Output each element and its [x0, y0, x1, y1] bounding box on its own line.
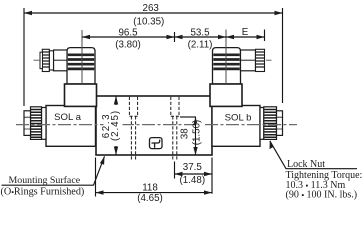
svg-text:(4.65): (4.65): [137, 193, 163, 204]
right cable gland knurled nut: [256, 49, 265, 71]
svg-text:SOL a: SOL a: [54, 112, 82, 123]
svg-text:Mounting Surface: Mounting Surface: [9, 175, 81, 186]
right lock nut end cap: [277, 111, 283, 136]
svg-text:(10.35): (10.35): [133, 17, 164, 28]
leader: lock nut: [270, 141, 358, 169]
mounting bolt hole 1 (dashed): [129, 97, 137, 161]
svg-text:(O▪Rings Furnished): (O▪Rings Furnished): [1, 186, 85, 197]
right connector socket base: [210, 84, 242, 106]
left cable gland knurled nut: [42, 49, 49, 71]
vertical centerline through right connector: [225, 30, 227, 85]
svg-text:53.5: 53.5: [190, 27, 210, 38]
left connector plain section: [54, 50, 68, 71]
svg-text:37.5: 37.5: [183, 162, 203, 173]
svg-text:38: 38: [180, 128, 191, 139]
dimension row2: line, ticks, arrows: [82, 30, 265, 43]
left coil collar: [42, 108, 47, 140]
dimension 263: line and arrows: [24, 11, 283, 15]
left cable gland tip cap: [40, 52, 43, 68]
dimension 62.3: line and arrows: [114, 96, 118, 155]
svg-text:(2.45): (2.45): [110, 110, 121, 141]
svg-text:(90 ▪ 100 IN. lbs.): (90 ▪ 100 IN. lbs.): [286, 190, 358, 201]
right solenoid coil: [212, 106, 260, 147]
vertical centerline through left connector: [81, 30, 83, 84]
svg-text:(3.80): (3.80): [115, 40, 141, 51]
svg-text:E: E: [242, 27, 249, 38]
svg-text:(1.50): (1.50): [192, 120, 203, 146]
right connector plain section: [241, 50, 256, 71]
right coil collar: [260, 108, 264, 140]
left solenoid coil: [46, 106, 96, 147]
svg-text:(2.11): (2.11): [188, 40, 213, 51]
right lock nut (knurled): [264, 107, 277, 140]
valve body: [96, 96, 212, 155]
dimension 263: extension lines: [24, 8, 283, 106]
right connector main body (striped): [213, 48, 241, 84]
left lock nut end cap: [24, 111, 31, 136]
dimension 37.5: extension, line, arrows: [175, 158, 213, 194]
svg-text:Lock Nut: Lock Nut: [287, 159, 325, 170]
left cable gland neck: [49, 51, 53, 70]
left lock nut (knurled): [31, 107, 42, 140]
horizontal main centerline: [16, 124, 297, 126]
leader: mounting surface: [2, 156, 105, 185]
left connector main body (striped): [67, 48, 95, 84]
left gland centerline stub: [34, 59, 41, 61]
left connector socket base: [65, 84, 97, 106]
dimension 118: extension, line, arrows: [96, 158, 213, 197]
nameplate symbol on body: [150, 138, 163, 149]
dimension 38: tick, line and arrows: [180, 117, 198, 155]
svg-text:SOL b: SOL b: [225, 113, 252, 124]
svg-text:263: 263: [143, 3, 160, 14]
vertical dimension texts: [104, 106, 123, 143]
right gland centerline stub: [266, 59, 272, 61]
svg-text:(1.48): (1.48): [180, 175, 206, 186]
mounting bolt hole 2 (dashed): [171, 97, 179, 161]
svg-text:96.5: 96.5: [118, 27, 138, 38]
